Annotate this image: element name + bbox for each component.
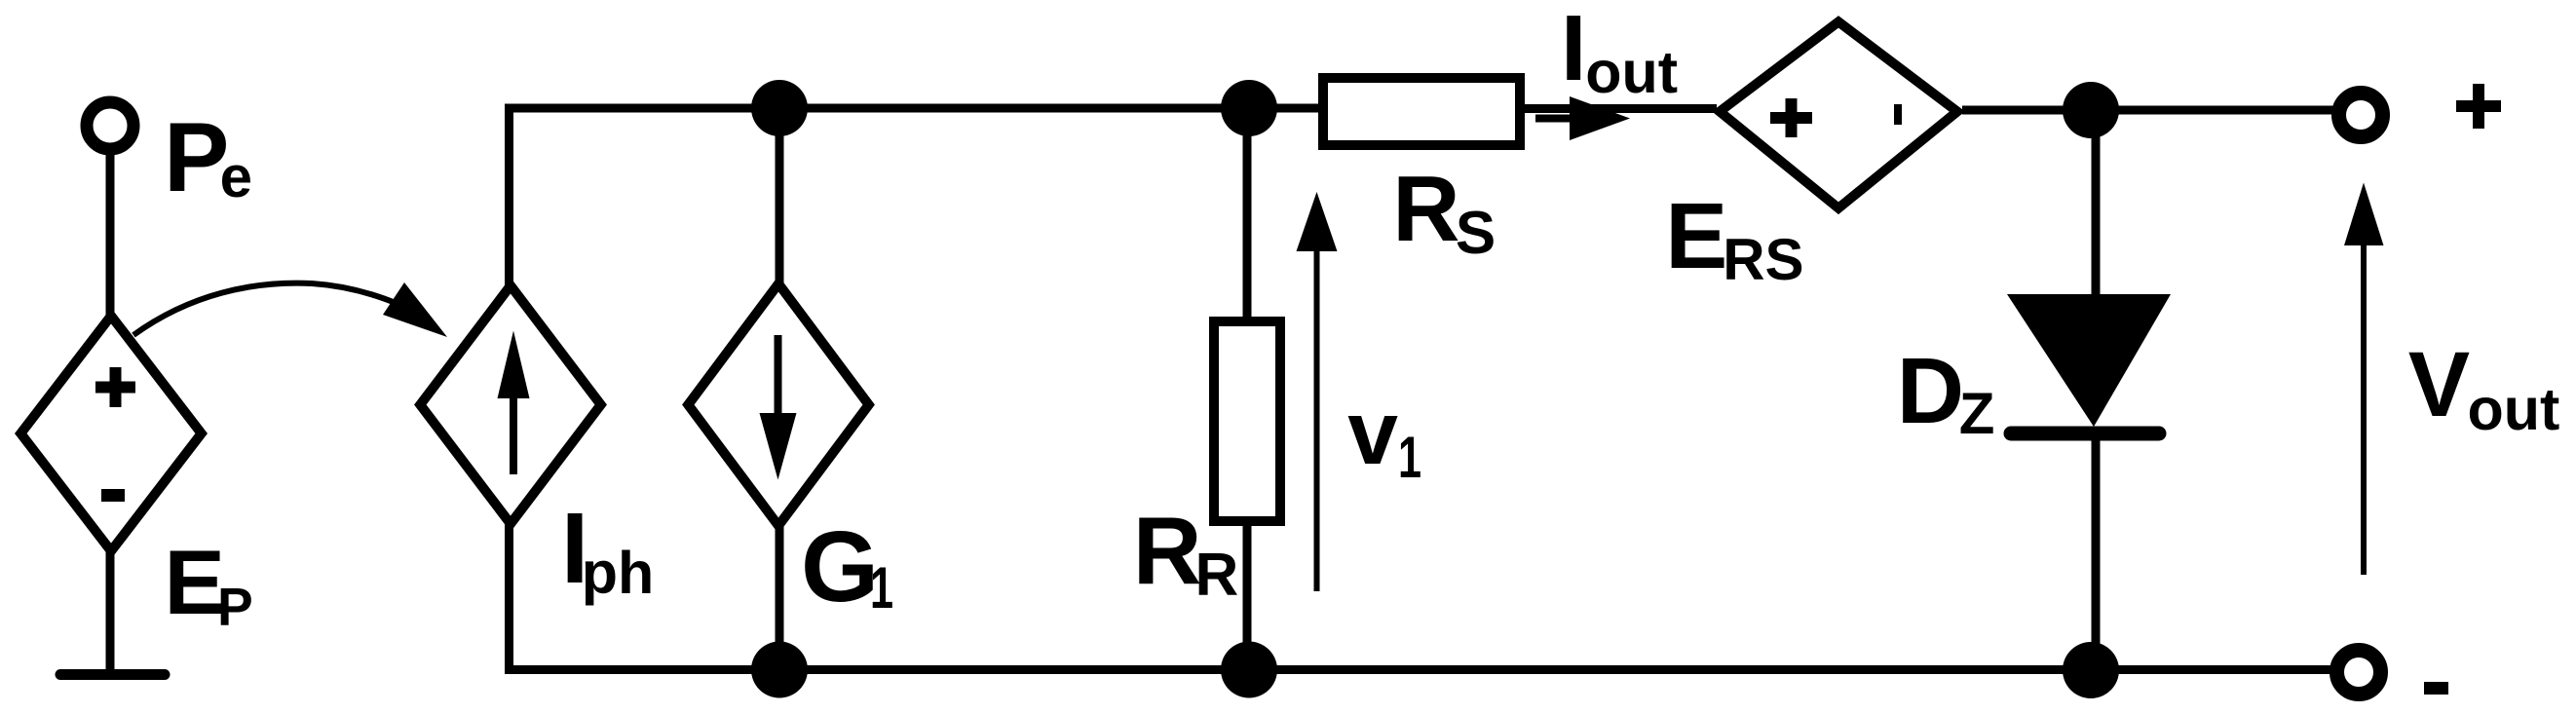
wire G1 top	[776, 108, 784, 290]
label ERS	[1665, 184, 1803, 292]
wire DZ top	[2092, 110, 2101, 300]
node top RR	[1221, 80, 1277, 136]
v1 arrow	[1297, 192, 1338, 591]
control arrow curve	[133, 283, 429, 335]
svg-text:V: V	[2408, 333, 2470, 436]
svg-text:v: v	[1347, 382, 1398, 483]
dependent source EP	[20, 316, 201, 551]
wire bottom rail	[505, 665, 2334, 674]
wire RR top	[1243, 108, 1252, 321]
wire Iph to bottom rail	[505, 516, 513, 673]
svg-text:ph: ph	[582, 540, 655, 606]
terminal Pe	[87, 102, 133, 149]
label DZ	[1897, 339, 1995, 446]
svg-text:S: S	[1456, 200, 1496, 267]
wire top rail left	[505, 104, 1323, 113]
resistor RS	[1323, 78, 1520, 145]
wire rail ERS to terminal	[1962, 106, 2336, 115]
ERS minus tick	[1894, 104, 1902, 125]
EP plus	[95, 367, 135, 407]
label RR	[1133, 497, 1238, 609]
terminal plus output	[2339, 94, 2383, 137]
label RS	[1392, 157, 1496, 267]
G1 arrow	[760, 335, 797, 480]
svg-text:E: E	[164, 531, 225, 633]
Vout arrow	[2344, 183, 2384, 576]
label Pe	[164, 103, 252, 212]
svg-text:G: G	[801, 510, 879, 622]
svg-text:D: D	[1897, 339, 1964, 443]
control arrowhead	[383, 282, 447, 337]
Iout arrow	[1535, 96, 1630, 140]
zener diode DZ	[2007, 294, 2171, 433]
node bottom G1	[751, 642, 808, 698]
node bottom RR	[1221, 642, 1277, 698]
node bottom DZ	[2063, 642, 2119, 698]
svg-text:P: P	[217, 577, 253, 637]
dependent source G1	[688, 283, 868, 525]
label v1	[1347, 382, 1421, 491]
label Iph	[561, 492, 654, 606]
label G1	[801, 510, 893, 622]
svg-text:1: 1	[1398, 426, 1421, 491]
label Vout	[2408, 333, 2560, 442]
svg-text:out: out	[2468, 376, 2560, 442]
svg-text:out: out	[1585, 39, 1678, 105]
resistor RR	[1214, 321, 1280, 521]
wire EP to ground	[106, 545, 115, 670]
minus sign output	[2424, 682, 2448, 695]
Iph arrow	[498, 331, 530, 475]
ERS plus	[1770, 98, 1812, 137]
svg-text:R: R	[1133, 497, 1202, 604]
wire G1 bottom	[776, 519, 784, 669]
svg-text:R: R	[1195, 542, 1239, 609]
EP minus	[101, 489, 125, 502]
svg-text:I: I	[1561, 0, 1587, 100]
plus sign output	[2456, 84, 2501, 129]
wire left drop to Iph	[505, 104, 513, 292]
svg-text:R: R	[1392, 157, 1459, 261]
dependent source Iph	[420, 285, 600, 524]
svg-text:Z: Z	[1959, 381, 1995, 446]
wire RR bottom	[1243, 521, 1252, 669]
dependent source ERS	[1720, 21, 1957, 207]
node top G1	[751, 80, 808, 136]
label EP	[164, 531, 252, 637]
wire DZ bottom	[2092, 429, 2101, 670]
ground	[60, 669, 165, 680]
terminal minus output	[2337, 651, 2381, 695]
wire rail RS to ERS	[1523, 104, 1717, 113]
svg-text:e: e	[220, 144, 252, 209]
svg-text:E: E	[1665, 184, 1727, 288]
label Iout	[1561, 0, 1678, 105]
svg-text:1: 1	[870, 556, 893, 621]
svg-text:RS: RS	[1723, 227, 1803, 292]
node top DZ	[2063, 82, 2119, 138]
wire Pe to EP	[106, 148, 115, 321]
